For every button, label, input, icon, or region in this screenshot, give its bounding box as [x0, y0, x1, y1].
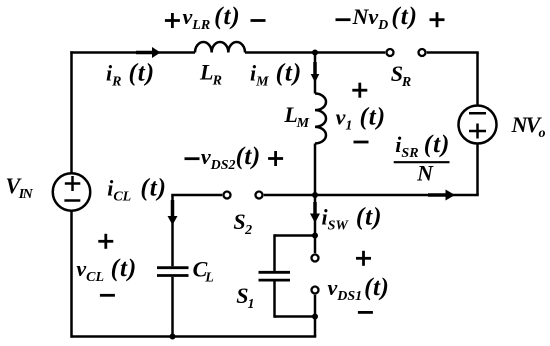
svg-text:N: N: [416, 161, 434, 186]
svg-text:v1(t): v1(t): [336, 104, 386, 134]
